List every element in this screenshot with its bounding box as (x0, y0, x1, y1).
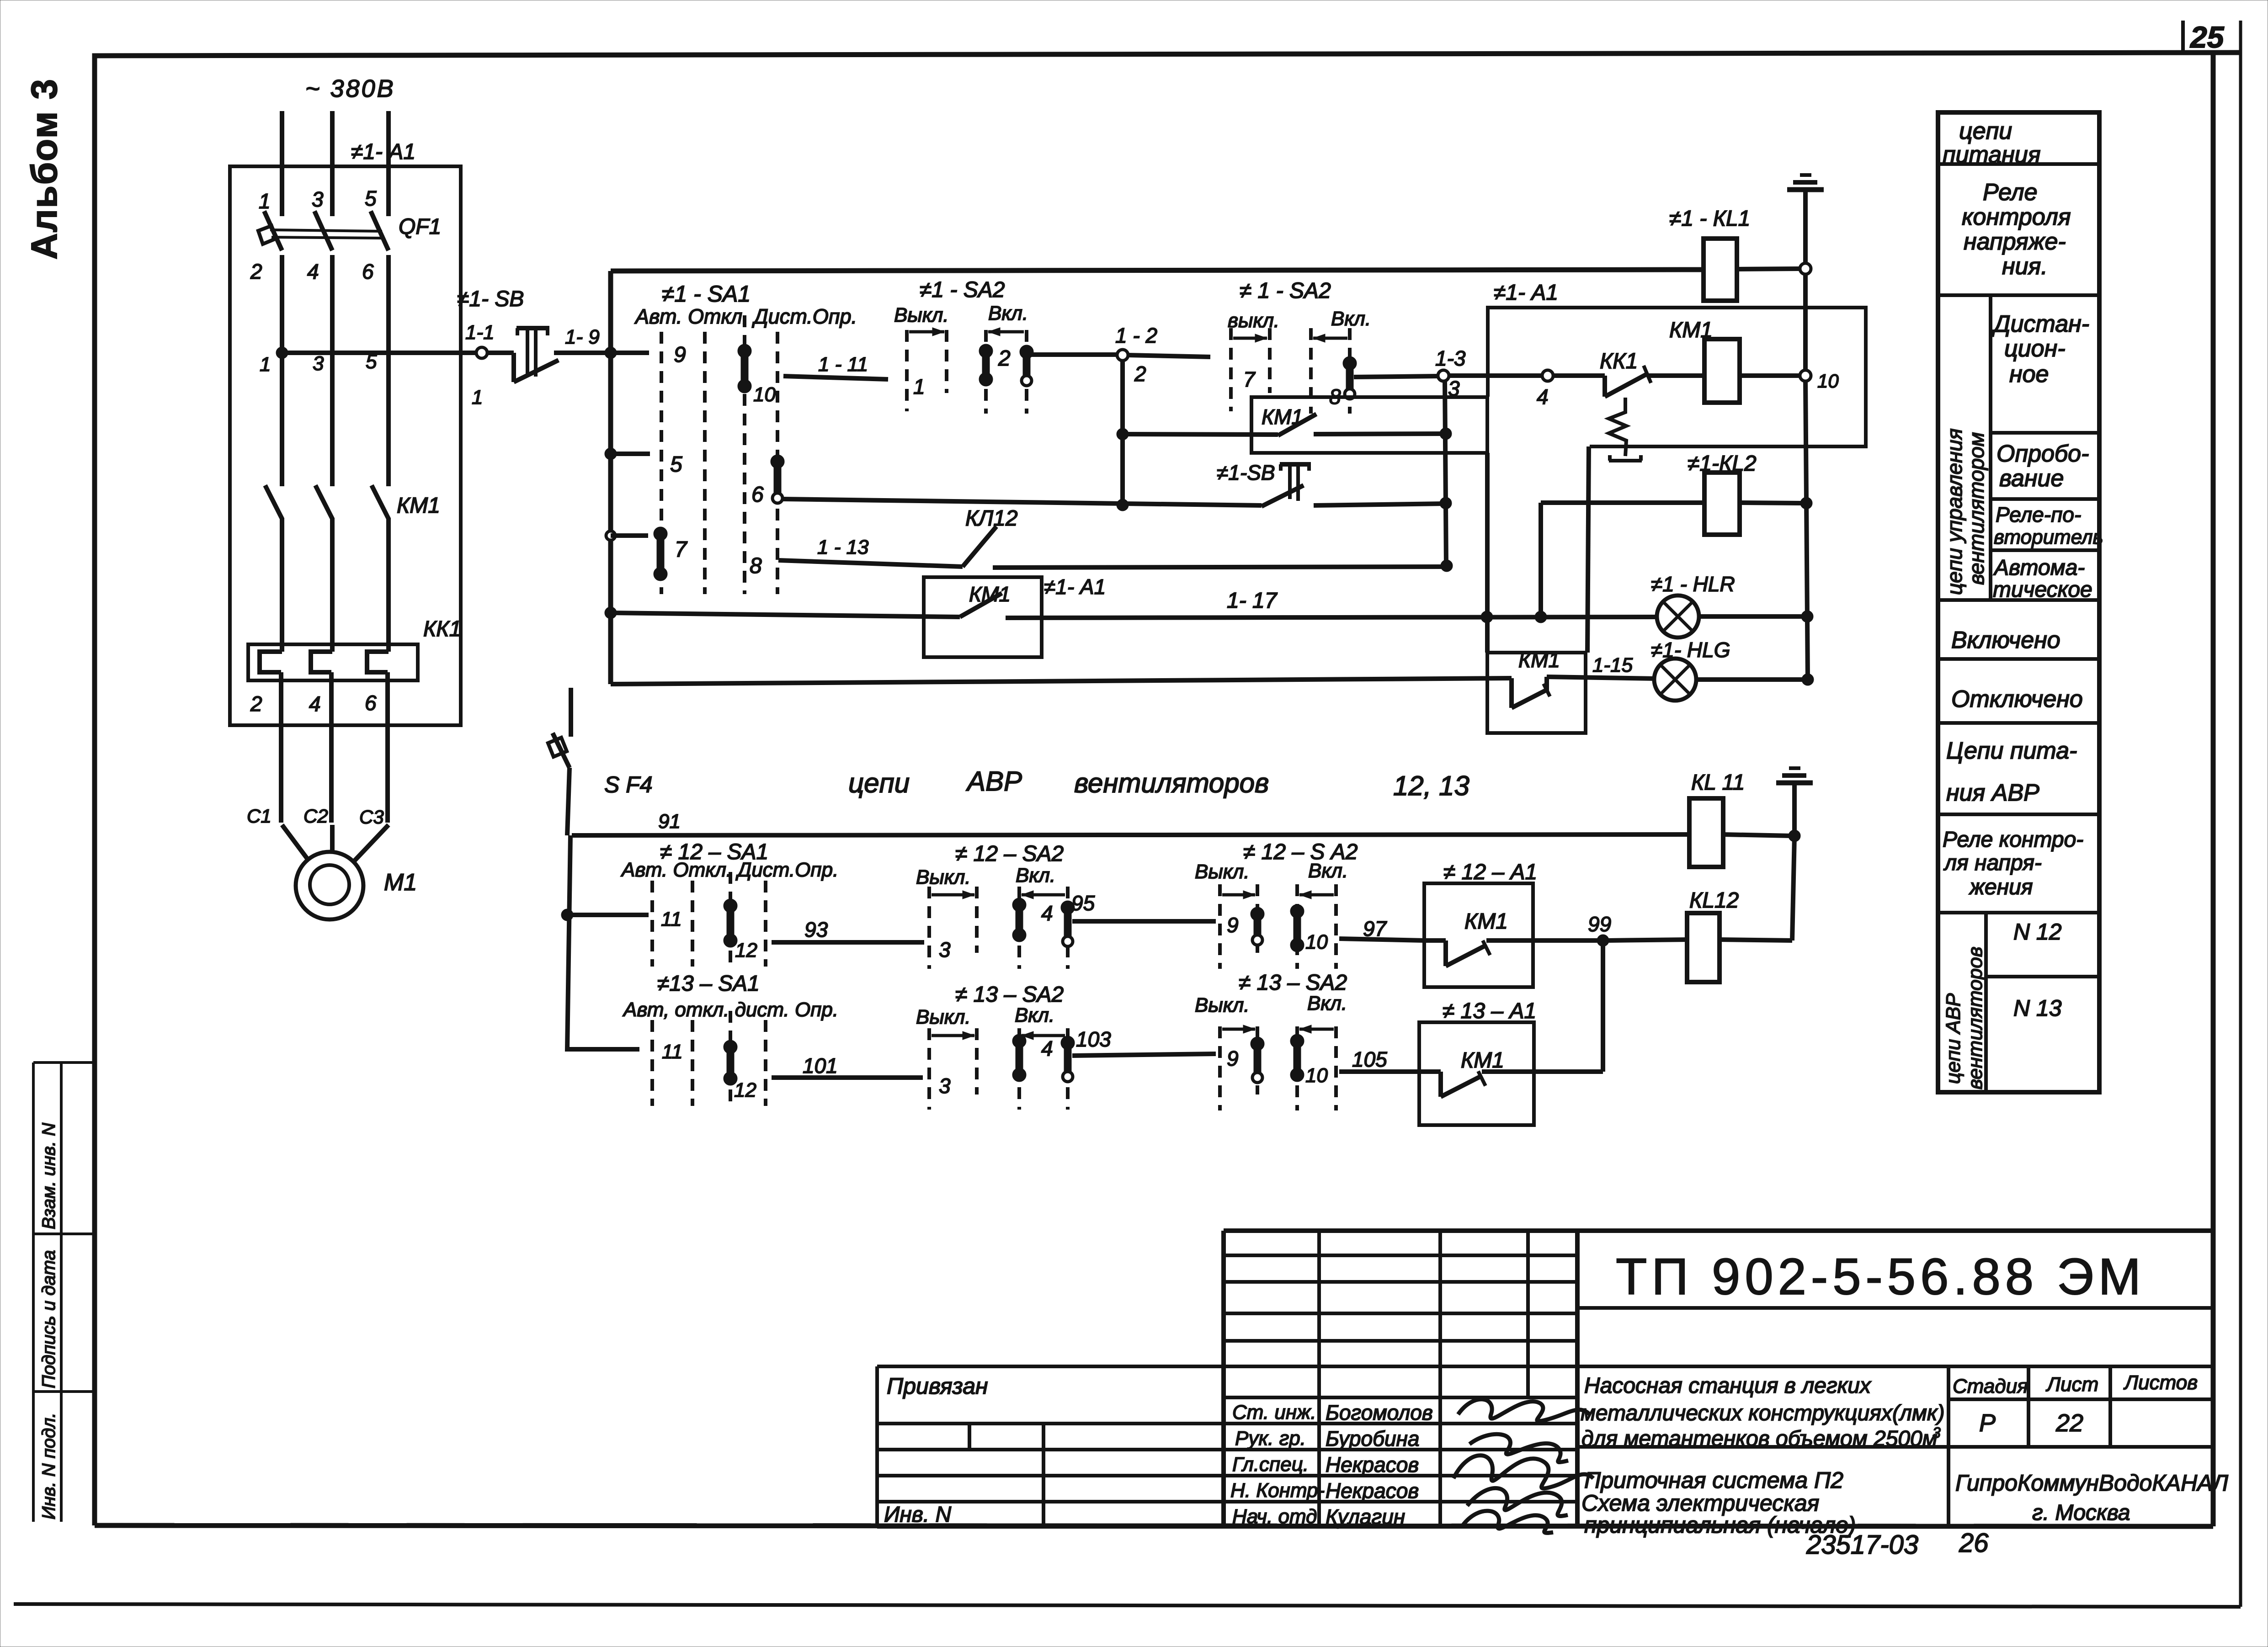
value 22 (2055, 1409, 2083, 1437)
privyazan box (877, 1366, 1043, 1526)
contact SA1 6 (771, 455, 784, 503)
svg-text:Выкл.: Выкл. (916, 1006, 971, 1028)
svg-text:≠ 13 – SА2: ≠ 13 – SА2 (955, 983, 1064, 1007)
node 1-1 (476, 347, 487, 358)
contact 12-SA2 4b (1061, 901, 1075, 946)
wire coil to rail (1740, 373, 1800, 378)
wire row 7 (611, 533, 648, 538)
label vykl-2 (1228, 309, 1279, 332)
wire row 6 to SB2 (783, 499, 1262, 505)
table row relay1 (1962, 179, 2071, 280)
wire 101 (772, 1075, 923, 1080)
label 4 under node (1537, 385, 1549, 409)
wire 99 to KL12 (1608, 940, 1687, 940)
contact 13-SA1 (724, 1040, 737, 1085)
svg-text:3: 3 (312, 187, 324, 211)
svg-text:4: 4 (1041, 901, 1053, 925)
wire 99 down (1601, 940, 1605, 1072)
svg-text:Авт, откл. дист. Опр.: Авт, откл. дист. Опр. (622, 999, 838, 1021)
svg-text:Н. Контр-: Н. Контр- (1230, 1479, 1325, 1502)
svg-text:5: 5 (365, 186, 377, 210)
label M1 (384, 869, 417, 896)
doc number (1806, 1528, 1989, 1560)
label 1-15 (1592, 654, 1633, 676)
left margin label Инв (39, 1413, 59, 1519)
svg-text:≠ 13 – SА2: ≠ 13 – SА2 (1239, 971, 1347, 995)
svg-text:КК1: КК1 (1600, 349, 1638, 373)
svg-text:6: 6 (362, 260, 374, 283)
wire 1-17 right (1006, 611, 1655, 623)
svg-text:КМ1: КМ1 (1461, 1048, 1504, 1073)
svg-text:3: 3 (313, 352, 324, 375)
label wire 1-13 (817, 536, 869, 558)
label 13-SA1 positions (622, 999, 838, 1021)
wire 105 (1339, 1069, 1419, 1074)
label QF1 (399, 215, 441, 239)
svg-text:≠13 – SА1: ≠13 – SА1 (657, 972, 760, 996)
wire KL11 to KL12 (1720, 836, 1794, 940)
label wire 1-11 (818, 353, 868, 376)
wire KL2 right (1740, 503, 1803, 503)
label vkl-1 (988, 302, 1028, 324)
wire to node 1-3 (1354, 376, 1439, 377)
svg-text:97: 97 (1363, 917, 1387, 940)
wire 13A1 out (1482, 1069, 1603, 1074)
table header (1943, 118, 2041, 168)
sig row 3 (1232, 1453, 1419, 1477)
label KM1 HLG (1518, 648, 1560, 672)
label 12-SA1 positions (620, 859, 838, 881)
contact 13-SA2 9 (1251, 1037, 1264, 1083)
lamp HLG (1654, 659, 1696, 701)
label C1 (247, 805, 272, 827)
label 1 under node (472, 386, 483, 409)
svg-text:4: 4 (1041, 1036, 1053, 1060)
ground AVR (1776, 768, 1813, 836)
label contact 11a (661, 908, 682, 930)
label HLR (1651, 572, 1735, 596)
svg-text:2: 2 (1134, 362, 1146, 386)
contact SA1 10 (738, 344, 751, 393)
cabinet box 13-A1 (1419, 1022, 1534, 1125)
table row avto (1993, 556, 2092, 602)
label contact 3a (939, 938, 951, 962)
label KM1 coil (1669, 318, 1713, 342)
svg-text:≠1- А1: ≠1- А1 (1494, 281, 1558, 305)
svg-text:Стадия: Стадия (1953, 1375, 2028, 1397)
svg-text:1-1: 1-1 (465, 321, 495, 344)
svg-text:N 12: N 12 (2013, 919, 2062, 945)
wire KL2 branch (1535, 503, 1704, 623)
label KK1 aux (1600, 349, 1638, 373)
node 1-3 (1438, 370, 1449, 381)
node tap phase A (276, 347, 288, 359)
wire 97 (1339, 939, 1424, 940)
label contact 8b (1329, 385, 1341, 409)
label 12-SA1 (660, 840, 768, 864)
wire KK1 to coil (1647, 373, 1704, 378)
switch 13-SA1 dashed columns (652, 1011, 766, 1106)
label privyazan (887, 1373, 988, 1399)
contact KM1 12 (1424, 940, 1490, 966)
svg-text:Р: Р (1979, 1409, 1996, 1437)
wire HLG to rail (1696, 677, 1808, 682)
contact KM1 1-17 (960, 593, 1002, 617)
svg-text:Дистан-: Дистан- (1991, 311, 2089, 337)
svg-text:цион-: цион- (2004, 335, 2066, 362)
wire phase C mid (386, 255, 391, 486)
wire 1-13 (778, 560, 963, 567)
label 105 (1352, 1047, 1387, 1071)
svg-text:вентилятором: вентилятором (1965, 432, 1988, 585)
svg-text:10: 10 (1817, 370, 1839, 392)
label contact 2 (998, 346, 1011, 371)
wire 12A1 out (1486, 938, 1599, 943)
svg-text:Привязан: Привязан (887, 1373, 988, 1399)
label SA1 (662, 281, 751, 307)
caption AVR (848, 766, 1469, 801)
svg-text:2: 2 (250, 260, 262, 283)
label 101 (803, 1054, 838, 1078)
project name (1581, 1374, 1945, 1451)
svg-text:23517-03: 23517-03 (1806, 1530, 1918, 1560)
wire selfhold corner down (1485, 453, 1490, 653)
svg-text:3: 3 (1448, 377, 1460, 400)
wire 95 (1072, 919, 1216, 924)
pin 1 below (260, 353, 271, 376)
label KM1 main (397, 494, 440, 518)
svg-text:7: 7 (675, 537, 688, 562)
svg-text:1 - 11: 1 - 11 (818, 353, 868, 376)
svg-text:КL 11: КL 11 (1691, 770, 1745, 795)
contactor aux KM1 box HLG (1487, 653, 1586, 733)
svg-text:тическое: тическое (1993, 578, 2092, 602)
label 1-9 (565, 326, 600, 348)
lamp HLR (1657, 595, 1699, 638)
svg-text:ния АВР: ния АВР (1946, 780, 2039, 806)
pin 3 (312, 187, 324, 211)
wire KL12 right (993, 560, 1453, 572)
org name (1955, 1470, 2229, 1525)
svg-text:Некрасов: Некрасов (1326, 1453, 1419, 1477)
svg-text:Лист: Лист (2045, 1373, 2098, 1396)
svg-text:Опробо-: Опробо- (1996, 441, 2089, 467)
sig row 1 (1232, 1401, 1433, 1424)
svg-text:Включено: Включено (1951, 627, 2060, 653)
svg-text:22: 22 (2055, 1409, 2083, 1437)
label 2 under node (1134, 362, 1146, 386)
label contact 7b (1243, 367, 1256, 391)
contact SA2 2a (979, 344, 993, 386)
pin 5 (365, 186, 377, 210)
svg-text:питания: питания (1943, 142, 2041, 168)
arrow vykl 12a (932, 891, 974, 899)
label 1-17 (1227, 589, 1278, 613)
supply label 380V (305, 75, 395, 102)
label vkl 13b (1307, 992, 1347, 1015)
cabinet box A1 power (230, 166, 461, 725)
relay coil KL12 (1687, 913, 1720, 982)
switch SA1 dashed columns (661, 315, 777, 594)
svg-text:Выкл.: Выкл. (916, 866, 971, 888)
svg-text:1: 1 (472, 386, 483, 409)
contactor main contacts KM1 (265, 485, 389, 519)
svg-text:1- 17: 1- 17 (1227, 589, 1278, 613)
label contact 11b (662, 1041, 683, 1063)
left margin label Подпись (39, 1250, 59, 1388)
svg-text:КМ1: КМ1 (1669, 318, 1713, 342)
label KK1 (423, 617, 461, 641)
contact 13-SA2 10 (1290, 1034, 1304, 1082)
svg-text:10: 10 (753, 383, 776, 406)
junction bus 993 (605, 448, 617, 460)
svg-text:цепи: цепи (848, 768, 910, 798)
svg-text:Нач. отд.: Нач. отд. (1232, 1505, 1323, 1528)
table rotated ctrl (1943, 428, 1988, 595)
svg-text:5: 5 (366, 351, 377, 373)
label 95 (1071, 891, 1095, 915)
label SF4 (604, 772, 653, 797)
svg-text:3: 3 (939, 938, 951, 962)
svg-text:3: 3 (939, 1074, 951, 1098)
label 13-A1 (1443, 999, 1536, 1023)
label A1 1-17 (1044, 575, 1106, 599)
sheet number cell 25 (2183, 20, 2225, 54)
signatures (1453, 1399, 1593, 1533)
svg-text:М1: М1 (384, 869, 417, 896)
svg-text:12, 13: 12, 13 (1393, 770, 1469, 801)
label vkl-2 (1331, 308, 1371, 330)
label 13-SA1 (657, 972, 760, 996)
svg-text:контроля: контроля (1962, 204, 2071, 230)
table row oprob (1996, 441, 2089, 492)
svg-text:≠ 12 – А1: ≠ 12 – А1 (1443, 860, 1537, 884)
svg-text:АВР: АВР (966, 766, 1022, 797)
label KL2 (1688, 452, 1757, 476)
svg-text:Буробина: Буробина (1326, 1427, 1419, 1450)
svg-text:Вкл.: Вкл. (1331, 308, 1371, 330)
label SA1 positions (634, 305, 857, 328)
table row cepi avr (1946, 738, 2077, 806)
table row vkl (1951, 627, 2060, 653)
wire 91 (572, 834, 1689, 835)
wire node1-3 down (1445, 381, 1446, 566)
wire row 5 (611, 452, 650, 456)
pin 4 (307, 260, 319, 283)
svg-text:1: 1 (260, 353, 271, 376)
wire phase A mid (280, 255, 284, 486)
svg-text:≠1 - НLR: ≠1 - НLR (1651, 572, 1735, 596)
svg-text:≠1-КL2: ≠1-КL2 (1688, 452, 1757, 476)
arrow vkl-2 (1313, 334, 1347, 342)
arrow vykl 13a (932, 1031, 974, 1040)
svg-text:S F4: S F4 (604, 772, 653, 797)
svg-text:ное: ное (2009, 361, 2049, 388)
function table grid (1938, 112, 2099, 1092)
label contact 8 (750, 554, 762, 578)
arrow vykl 13b (1222, 1025, 1255, 1033)
svg-text:Выкл.: Выкл. (1195, 994, 1250, 1016)
svg-text:91: 91 (658, 810, 681, 833)
contactor coil KM1 (1704, 339, 1740, 403)
svg-text:6: 6 (365, 691, 377, 715)
label contact 10 (753, 383, 776, 406)
arrow vkl 13b (1299, 1025, 1334, 1033)
label contact 10b (1305, 1064, 1328, 1087)
label listov (2123, 1371, 2198, 1394)
label contact 4b (1041, 1036, 1053, 1060)
label 91 (658, 810, 681, 833)
label vykl 12b (1195, 861, 1250, 883)
wire to motor (282, 825, 389, 861)
label KM1 selfhold (1262, 405, 1303, 429)
pin 5 below (366, 351, 377, 373)
pin 3 below (313, 352, 324, 375)
svg-text:Отключено: Отключено (1951, 686, 2083, 712)
wire HLR to rail (1699, 614, 1805, 619)
contact 13-SA2 4b (1061, 1036, 1075, 1082)
svg-text:1-3: 1-3 (1435, 346, 1466, 370)
stadia table (1949, 1366, 2213, 1526)
contactor aux KM1 selfhold box (1251, 397, 1487, 453)
svg-text:Рук. гр.: Рук. гр. (1235, 1427, 1306, 1450)
svg-text:Реле контро-: Реле контро- (1943, 828, 2083, 852)
relay coil KL2 (1704, 473, 1740, 535)
svg-text:Реле: Реле (1983, 179, 2038, 206)
label KM1 1-17 (969, 582, 1011, 606)
svg-text:6: 6 (751, 483, 764, 507)
svg-text:цепи управления: цепи управления (1943, 428, 1966, 595)
label HLG (1651, 638, 1730, 662)
breaker SF4 (548, 688, 571, 835)
wire node 1-2 down (1117, 360, 1129, 511)
switch SA2-1 dashed columns (907, 330, 1027, 414)
label C2 (303, 805, 328, 827)
label C3 (359, 806, 384, 828)
arrow vykl 12b (1222, 891, 1255, 899)
svg-text:3: 3 (1933, 1424, 1941, 1441)
svg-text:КМ1: КМ1 (1518, 648, 1560, 672)
svg-text:вание: вание (1999, 465, 2064, 492)
node 4 (1542, 370, 1553, 381)
contact SA2 8 (1343, 356, 1357, 399)
svg-text:9: 9 (1227, 1047, 1239, 1070)
svg-text:Авт. Откл. Дист.Опр.: Авт. Откл. Дист.Опр. (634, 305, 857, 328)
arrow vkl 13a (1022, 1031, 1065, 1040)
pin 6 (362, 260, 374, 283)
svg-text:1- 9: 1- 9 (565, 326, 600, 348)
svg-text:25: 25 (2189, 20, 2225, 54)
svg-text:Кулагин: Кулагин (1326, 1505, 1405, 1529)
switch 12-SA2b dashed columns (1220, 884, 1336, 969)
svg-text:ния.: ния. (2002, 253, 2048, 280)
svg-text:26: 26 (1959, 1528, 1989, 1558)
svg-text:≠ 13 – А1: ≠ 13 – А1 (1443, 999, 1536, 1023)
contact KM1 selfhold (1278, 414, 1316, 436)
svg-text:2: 2 (250, 692, 262, 716)
left margin table (33, 1063, 95, 1522)
label 12-A1 (1443, 860, 1537, 884)
pushbutton SB2 (1262, 464, 1311, 506)
label contact 4a (1041, 901, 1053, 925)
switch 13-SA2b dashed columns (1220, 1026, 1336, 1110)
svg-text:8: 8 (750, 554, 762, 578)
svg-text:КК1: КК1 (423, 617, 461, 641)
wire SB1 to bus (554, 351, 611, 355)
value P (1979, 1409, 1996, 1437)
svg-text:95: 95 (1071, 891, 1095, 915)
wire 103 (1072, 1054, 1216, 1056)
svg-text:КМ1: КМ1 (1464, 909, 1508, 934)
wire tap to 1-1 (282, 351, 477, 355)
wire 1-15 left (611, 678, 1512, 684)
sig row 2 (1235, 1427, 1419, 1450)
label KM1 12 (1464, 909, 1508, 934)
svg-text:ТП 902-5-56.88 ЭМ: ТП 902-5-56.88 ЭМ (1616, 1248, 2146, 1305)
svg-text:ГипроКоммунВодоКАНАЛ: ГипроКоммунВодоКАНАЛ (1955, 1470, 2229, 1496)
left margin label Взам (39, 1123, 59, 1229)
label contact 9a (1227, 913, 1239, 937)
pin 2 (250, 260, 262, 283)
svg-text:Вкл.: Вкл. (1015, 1004, 1054, 1026)
label vykl 13b (1195, 994, 1250, 1016)
svg-text:≠1-SВ: ≠1-SВ (1217, 461, 1275, 484)
svg-text:Приточная система П2: Приточная система П2 (1584, 1467, 1843, 1493)
contact 12-SA2 10 (1290, 904, 1304, 952)
svg-text:≠1 - КL1: ≠1 - КL1 (1669, 207, 1750, 231)
wire phase A low (281, 518, 282, 823)
label vykl 13a (916, 1006, 971, 1028)
svg-text:≠1 - SА2: ≠1 - SА2 (920, 278, 1005, 302)
wire row 11-12 (567, 913, 649, 917)
svg-text:Подпись и дата: Подпись и дата (39, 1250, 59, 1388)
svg-text:Реле-по-: Реле-по- (1996, 503, 2081, 526)
svg-text:103: 103 (1076, 1027, 1111, 1051)
label SB2 (1217, 461, 1275, 484)
sig row 4 (1230, 1479, 1419, 1503)
pin 2 KK1 (250, 692, 262, 716)
wire KL1 right (1737, 269, 1800, 269)
node 1-2 (1117, 350, 1128, 361)
svg-text:12: 12 (735, 939, 757, 962)
svg-text:жения: жения (1969, 875, 2033, 899)
contact 12-SA2 4a (1012, 898, 1026, 942)
label A1 power (351, 140, 415, 164)
wire node1-3 to 4 (1448, 373, 1543, 378)
wire to node 1-2 (1031, 352, 1118, 357)
relay coil KL1 (1704, 239, 1737, 301)
svg-text:Вкл.: Вкл. (1307, 992, 1347, 1015)
node KL1 terminal (1800, 263, 1811, 274)
label contact 6 (751, 483, 764, 507)
svg-text:1 - 13: 1 - 13 (817, 536, 869, 558)
wire phase B mid (330, 255, 335, 486)
wire node1-2 to SA2g2 (1127, 355, 1210, 357)
wire phase B low (331, 518, 332, 823)
contact 12-SA2 9 (1251, 907, 1264, 945)
wire phase C low (388, 518, 389, 823)
table row rele-po (1994, 503, 2103, 548)
arrow vykl-2 (1233, 334, 1267, 342)
label vkl 12b (1308, 860, 1348, 882)
junction bus 1341 (605, 607, 617, 619)
table row N13 (2013, 995, 2062, 1021)
label KM1 13 (1461, 1048, 1504, 1073)
svg-text:5: 5 (670, 452, 682, 477)
label SA2-2 (1240, 279, 1331, 303)
switch SA2-2 dashed columns (1231, 328, 1350, 414)
wire SB2 to node (1314, 497, 1452, 509)
